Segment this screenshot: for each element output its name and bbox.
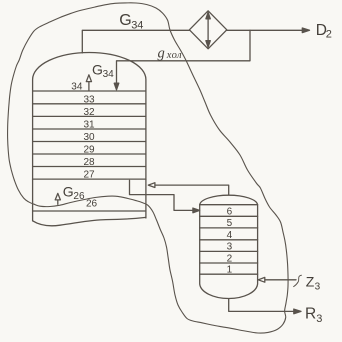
K3 tray line below 2 <box>200 262 258 264</box>
condenser internal double arrow <box>206 12 210 47</box>
svg-text:G: G <box>119 12 131 29</box>
tray line 30 <box>33 141 146 143</box>
svg-text:5: 5 <box>227 218 233 229</box>
column K3 shell (small column) <box>200 195 258 298</box>
tray line 27 <box>33 178 146 180</box>
vapour line from column K3 top into K2 (hollow arrow) <box>148 183 228 195</box>
tray line 33 <box>33 103 146 105</box>
svg-text:30: 30 <box>84 132 96 143</box>
side draw notch and liquid line from K2 to K3 tray 6 <box>130 180 200 212</box>
column K2 wavy break line <box>33 217 146 225</box>
svg-text:26: 26 <box>86 199 98 210</box>
svg-text:R: R <box>305 306 316 323</box>
svg-text:3: 3 <box>315 282 321 293</box>
column K2 shell (left column with dome) <box>33 52 146 220</box>
tray line 26 <box>33 210 146 212</box>
tray line 28 <box>33 166 146 168</box>
svg-text:27: 27 <box>84 170 96 181</box>
system boundary blob <box>8 3 289 333</box>
svg-text:1: 1 <box>227 265 233 276</box>
K3 tray line 6 top <box>200 204 258 206</box>
svg-text:6: 6 <box>227 207 233 218</box>
svg-text:хол: хол <box>166 50 182 61</box>
reflux return line g_hol <box>114 30 250 90</box>
svg-text:G: G <box>63 184 74 200</box>
tray line 34 <box>33 90 146 92</box>
label G34 at dome <box>92 62 114 80</box>
svg-text:31: 31 <box>84 120 96 131</box>
label G26 <box>63 184 85 202</box>
label g_hol <box>158 46 182 62</box>
svg-text:26: 26 <box>73 191 85 202</box>
condenser diamond <box>189 11 226 49</box>
svg-text:2: 2 <box>227 253 233 264</box>
svg-text:G: G <box>92 62 103 78</box>
svg-text:34: 34 <box>131 20 143 32</box>
svg-text:g: g <box>158 46 165 62</box>
tray line 32 <box>33 115 146 117</box>
K3 tray line below 5 <box>200 227 258 229</box>
label R3 <box>305 306 322 325</box>
svg-text:34: 34 <box>103 69 115 80</box>
svg-text:3: 3 <box>316 313 322 325</box>
svg-text:34: 34 <box>71 82 83 93</box>
bottoms line R3 <box>229 299 301 314</box>
label Z3 <box>306 273 321 292</box>
svg-text:28: 28 <box>84 157 96 168</box>
svg-text:33: 33 <box>84 94 96 105</box>
feed line Z3 (hollow arrow into K3) <box>258 275 301 286</box>
K3 tray line below 4 <box>200 239 258 241</box>
svg-text:3: 3 <box>227 242 233 253</box>
svg-text:2: 2 <box>326 29 332 41</box>
distillate line to D2 <box>227 28 310 33</box>
K3 tray line below 6 <box>200 215 258 217</box>
svg-text:Z: Z <box>306 273 315 289</box>
tray line 31 <box>33 128 146 130</box>
label D2 <box>316 22 332 41</box>
K3 tray line below 1 <box>200 273 258 275</box>
tray line 29 <box>33 153 146 155</box>
K3 tray line below 3 <box>200 250 258 252</box>
svg-text:32: 32 <box>84 107 96 118</box>
G34 arrow above tray 34 (hollow) <box>86 75 91 91</box>
svg-text:4: 4 <box>227 230 233 241</box>
G26 arrow below tray 26 (hollow) <box>55 193 60 204</box>
svg-text:29: 29 <box>84 145 96 156</box>
label G34 top <box>119 12 143 32</box>
G34 vapour riser from dome <box>82 30 189 53</box>
